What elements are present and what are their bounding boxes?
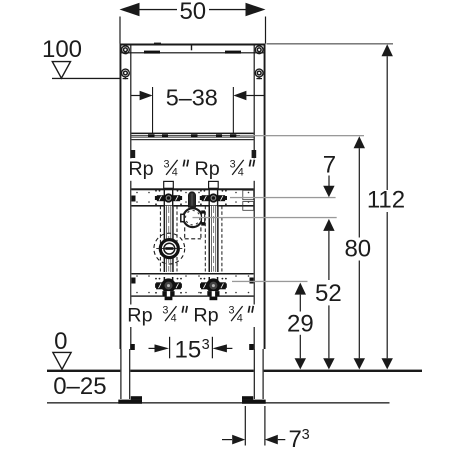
112 top reference line [267,43,394,44]
svg-text:7: 7 [289,426,302,450]
left leg [118,344,142,404]
svg-text:4: 4 [171,313,177,325]
svg-text:80: 80 [344,235,371,262]
dimension 7 [323,151,336,197]
dimension 52 [315,219,342,370]
lower fitting left [155,277,182,300]
svg-text:50: 50 [179,0,206,25]
upper crossbar [131,188,253,210]
svg-text:Rp: Rp [127,304,152,326]
gray reference line lower connection [232,281,308,282]
svg-text:3: 3 [229,305,235,317]
svg-text:Rp: Rp [128,158,153,180]
angle valve [156,238,182,259]
frame top bar [120,43,266,54]
lower crossbar [131,273,253,297]
left supply pipe [164,206,174,272]
80cm reference line (gray) [240,135,364,136]
lower fitting right [200,277,227,300]
corner screw left lower [122,69,130,79]
dimension 80 [344,136,371,369]
dimension 15-3 [149,336,233,363]
dimension 5-38 [131,84,265,133]
svg-text:29: 29 [287,310,314,337]
right supply pipe [209,206,219,272]
right supply pipe dashed range [205,206,222,272]
svg-text:3: 3 [230,158,236,170]
trap circle [183,208,202,227]
svg-text:0–25: 0–25 [53,373,106,400]
upper fitting right (water connection) [200,180,227,207]
frame right rail [254,44,266,350]
svg-text:0: 0 [54,328,67,355]
upper fitting left (water connection) [155,180,182,207]
finished floor line 0-25 [47,402,390,403]
rail clip marks [131,150,136,158]
svg-text:4: 4 [238,166,244,178]
svg-text:3: 3 [302,427,310,443]
corner screw top-right [255,46,263,54]
frame left rail [120,44,132,350]
corner screw right lower [255,69,263,79]
right leg [242,344,266,404]
dimension 112 [367,44,405,369]
gray reference line trap [193,217,337,218]
dashed box below trap [185,227,201,238]
dimension 100 wall level [42,36,121,79]
svg-text:4: 4 [237,313,243,325]
gray reference line tap connection [230,197,336,198]
svg-text:100: 100 [42,36,82,63]
floor line 0 level [47,370,422,372]
svg-text:7: 7 [323,151,336,178]
left supply pipe dashed range [160,206,177,272]
svg-text:15: 15 [175,336,202,363]
svg-text:Rp: Rp [193,304,218,326]
drain stub (dome top) [189,192,196,207]
mounting rail for washbasin [131,133,253,141]
svg-text:Rp: Rp [195,158,220,180]
svg-text:3: 3 [202,337,210,353]
corner screw top-left [122,46,130,54]
label Rp 3/4 row 2 [127,304,256,327]
dimension 0 floor level [53,328,71,369]
angle valve dashed circle [154,233,185,264]
dimension 7-3 [222,406,310,450]
svg-text:3: 3 [164,158,170,170]
label Rp 3/4 row 1 [128,158,257,181]
svg-text:3: 3 [162,305,168,317]
svg-text:5–38: 5–38 [166,84,218,110]
svg-text:4: 4 [172,166,178,178]
dimension 50 [119,0,266,44]
svg-text:112: 112 [367,187,405,214]
svg-text:52: 52 [315,280,342,307]
trap right outlet flange [202,213,205,223]
trap left tab [181,214,184,221]
dimension 29 [287,283,314,370]
